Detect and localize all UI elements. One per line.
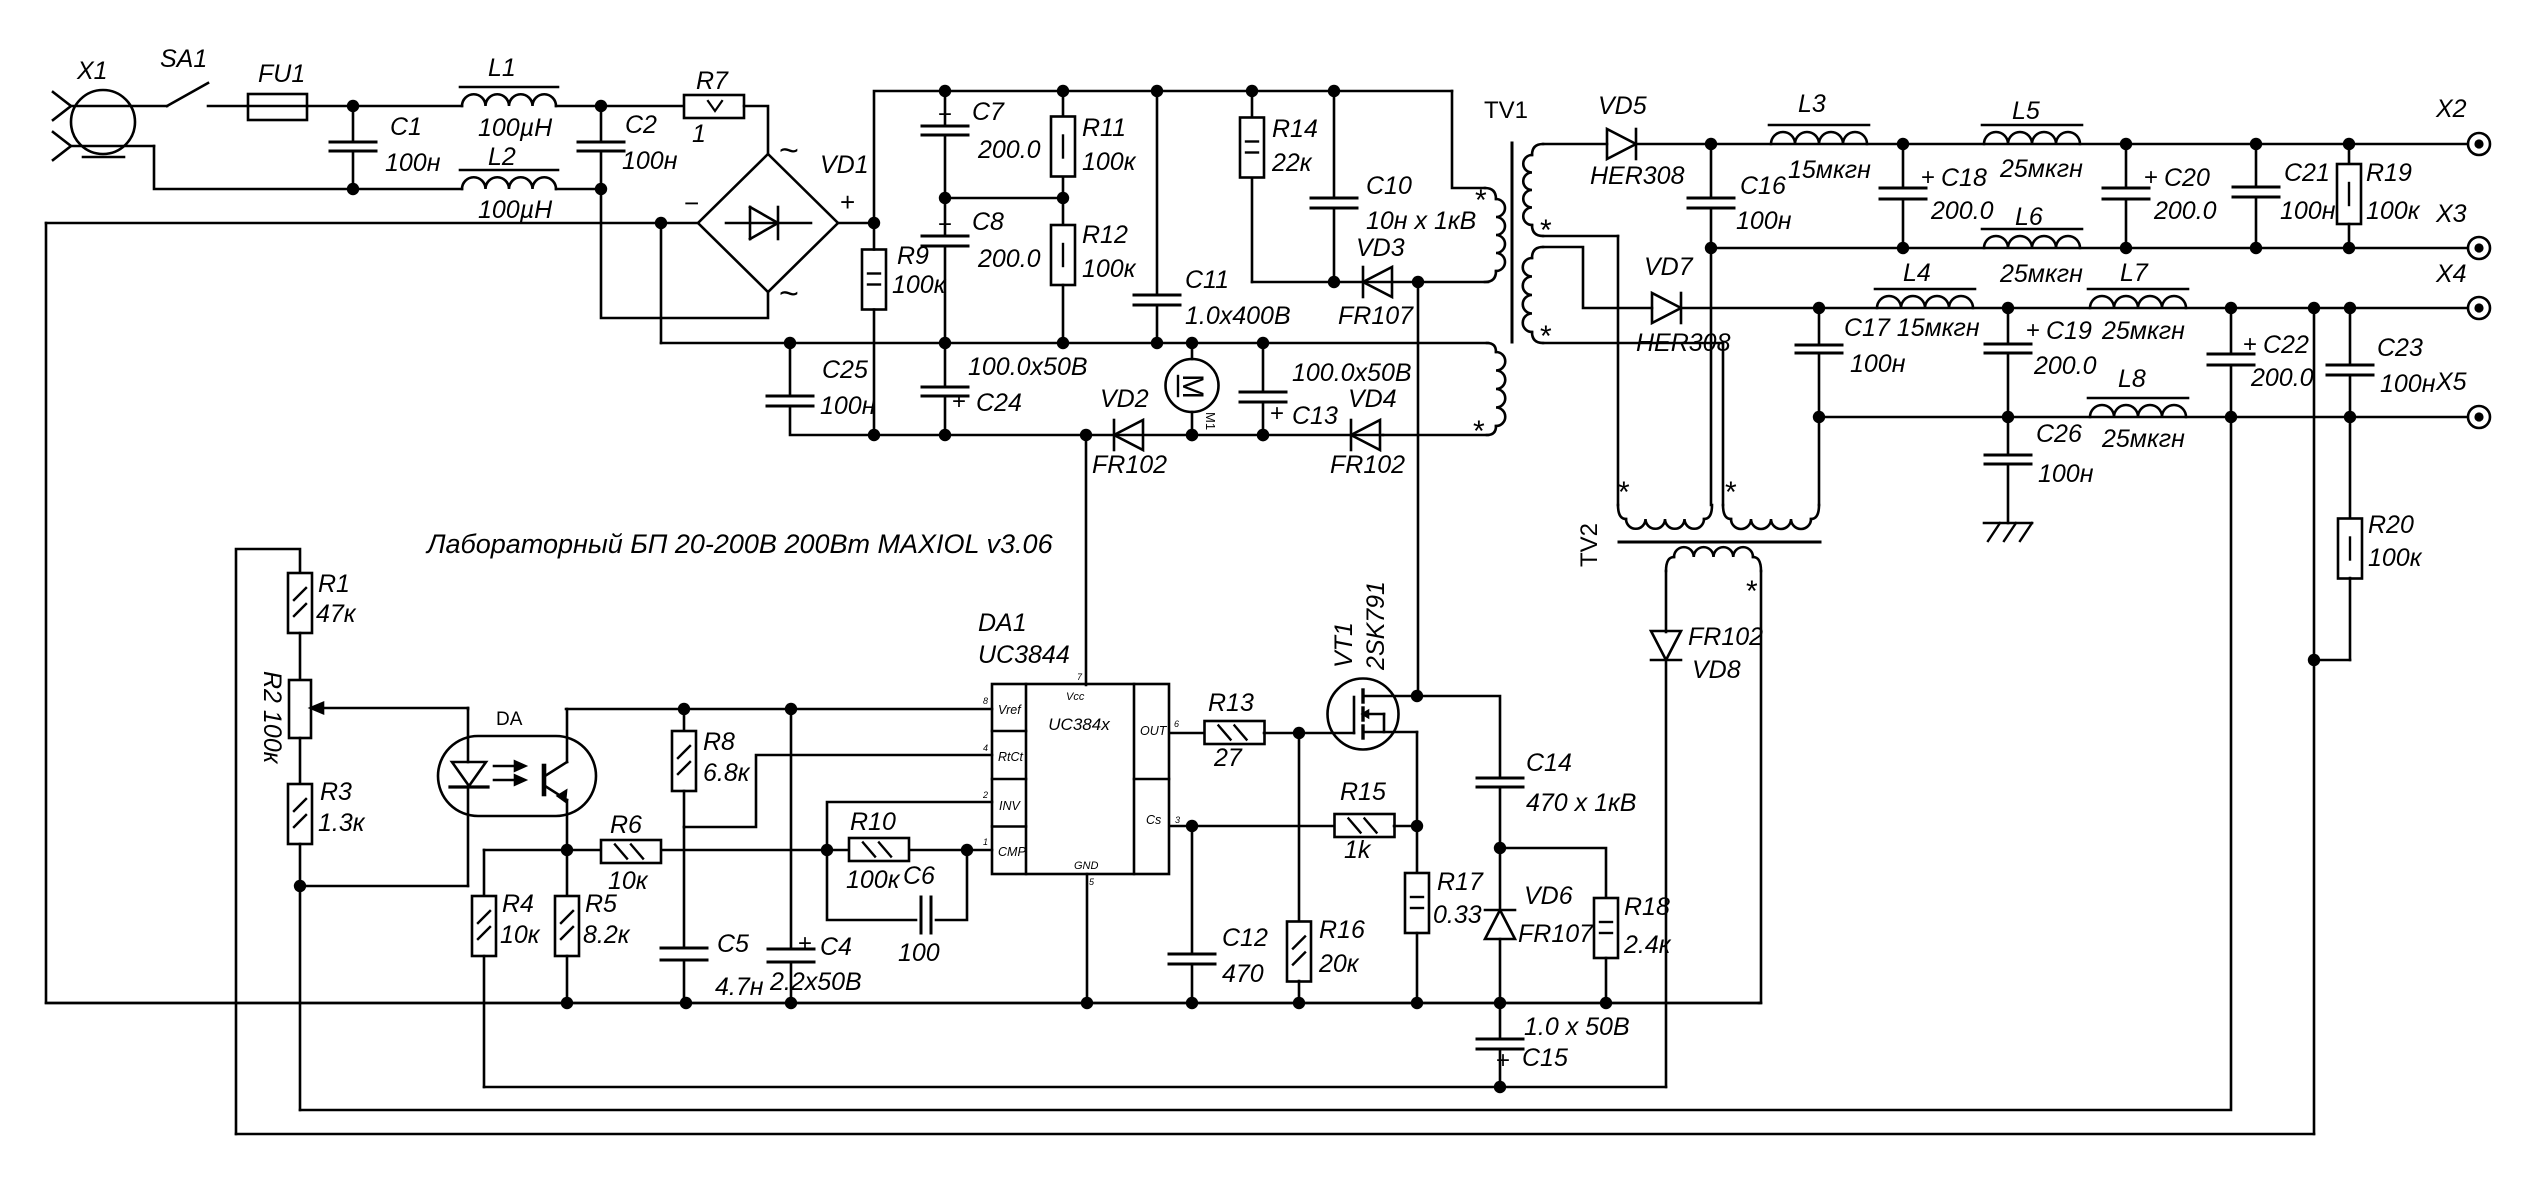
svg-text:100н: 100н bbox=[1736, 207, 1792, 235]
svg-text:VT1: VT1 bbox=[1330, 622, 1358, 668]
svg-text:FR102: FR102 bbox=[1330, 451, 1405, 479]
svg-text:Vref: Vref bbox=[998, 703, 1022, 717]
svg-text:+: + bbox=[938, 101, 952, 128]
svg-text:R18: R18 bbox=[1624, 893, 1670, 921]
svg-text:C14: C14 bbox=[1526, 749, 1572, 777]
svg-text:C16: C16 bbox=[1740, 172, 1786, 200]
svg-text:R4: R4 bbox=[502, 890, 534, 918]
svg-text:1: 1 bbox=[692, 120, 706, 148]
svg-text:8.2к: 8.2к bbox=[583, 921, 631, 949]
svg-text:C7: C7 bbox=[972, 98, 1005, 126]
svg-text:L8: L8 bbox=[2118, 365, 2146, 393]
svg-text:100к: 100к bbox=[2368, 544, 2423, 572]
svg-text:L6: L6 bbox=[2015, 203, 2043, 231]
svg-text:*: * bbox=[1473, 415, 1485, 448]
svg-text:X4: X4 bbox=[2435, 260, 2467, 288]
svg-text:200.0: 200.0 bbox=[1930, 197, 1994, 225]
svg-text:UC3844: UC3844 bbox=[978, 641, 1070, 669]
svg-text:+: + bbox=[1921, 164, 1935, 191]
svg-text:R5: R5 bbox=[585, 890, 617, 918]
svg-text:100µH: 100µH bbox=[478, 196, 553, 224]
svg-text:VD4: VD4 bbox=[1348, 385, 1397, 413]
svg-text:100к: 100к bbox=[1082, 148, 1137, 176]
svg-text:VD7: VD7 bbox=[1644, 253, 1694, 281]
svg-text:100: 100 bbox=[898, 939, 940, 967]
svg-text:+: + bbox=[2144, 164, 2158, 191]
svg-text:5: 5 bbox=[1089, 877, 1095, 887]
svg-text:R12: R12 bbox=[1082, 221, 1128, 249]
svg-text:100µH: 100µH bbox=[478, 114, 553, 142]
svg-text:100н: 100н bbox=[820, 392, 876, 420]
svg-text:L2: L2 bbox=[488, 143, 516, 171]
svg-text:VD6: VD6 bbox=[1524, 882, 1573, 910]
svg-text:R15: R15 bbox=[1340, 778, 1386, 806]
svg-text:−: − bbox=[684, 188, 699, 218]
svg-text:C17 15мкгн: C17 15мкгн bbox=[1844, 314, 1980, 342]
svg-text:+: + bbox=[952, 388, 966, 415]
svg-text:*: * bbox=[1475, 184, 1487, 217]
svg-text:R11: R11 bbox=[1082, 114, 1126, 142]
svg-text:FR102: FR102 bbox=[1688, 623, 1763, 651]
svg-text:R14: R14 bbox=[1272, 115, 1318, 143]
svg-text:INV: INV bbox=[999, 799, 1022, 813]
svg-text:25мкгн: 25мкгн bbox=[1999, 155, 2083, 183]
svg-text:*: * bbox=[1540, 320, 1552, 353]
svg-text:C15: C15 bbox=[1522, 1044, 1568, 1072]
svg-text:Vcc: Vcc bbox=[1066, 691, 1085, 703]
svg-text:7: 7 bbox=[1077, 672, 1083, 682]
svg-text:100к: 100к bbox=[892, 271, 947, 299]
svg-text:6.8к: 6.8к bbox=[703, 759, 751, 787]
svg-text:100к: 100к bbox=[1082, 255, 1137, 283]
svg-text:C19: C19 bbox=[2046, 317, 2092, 345]
svg-text:X5: X5 bbox=[2435, 368, 2467, 396]
svg-text:R10: R10 bbox=[850, 808, 896, 836]
svg-text:C22: C22 bbox=[2263, 331, 2309, 359]
svg-text:L3: L3 bbox=[1798, 90, 1826, 118]
svg-text:100н: 100н bbox=[385, 149, 441, 177]
svg-text:VD2: VD2 bbox=[1100, 385, 1149, 413]
svg-text:3: 3 bbox=[1175, 815, 1180, 825]
svg-text:*: * bbox=[1618, 476, 1630, 509]
svg-text:C8: C8 bbox=[972, 208, 1004, 236]
svg-text:Cs: Cs bbox=[1146, 813, 1161, 827]
svg-text:R17: R17 bbox=[1437, 868, 1484, 896]
svg-text:100н: 100н bbox=[2038, 460, 2094, 488]
svg-text:R3: R3 bbox=[320, 778, 352, 806]
svg-text:2SK791: 2SK791 bbox=[1362, 581, 1390, 671]
svg-text:100к: 100к bbox=[846, 866, 901, 894]
svg-text:C12: C12 bbox=[1222, 924, 1268, 952]
svg-text:+: + bbox=[1270, 400, 1284, 427]
svg-text:C5: C5 bbox=[717, 930, 749, 958]
svg-text:2: 2 bbox=[982, 790, 988, 800]
svg-text:25мкгн: 25мкгн bbox=[1999, 260, 2083, 288]
svg-text:100.0х50В: 100.0х50В bbox=[1292, 359, 1412, 387]
svg-text:1: 1 bbox=[983, 837, 988, 847]
svg-text:6: 6 bbox=[1174, 719, 1179, 729]
svg-text:2.2х50В: 2.2х50В bbox=[769, 968, 862, 996]
svg-text:4: 4 bbox=[983, 743, 988, 753]
svg-text:0.33: 0.33 bbox=[1433, 901, 1482, 929]
svg-text:SA1: SA1 bbox=[160, 45, 207, 73]
svg-text:*: * bbox=[1725, 476, 1737, 509]
svg-text:200.0: 200.0 bbox=[2250, 364, 2314, 392]
svg-text:FR107: FR107 bbox=[1338, 302, 1414, 330]
svg-text:TV1: TV1 bbox=[1484, 97, 1528, 124]
svg-text:VD5: VD5 bbox=[1598, 92, 1647, 120]
svg-text:100к: 100к bbox=[2366, 197, 2421, 225]
svg-text:200.0: 200.0 bbox=[977, 245, 1041, 273]
svg-text:VD1: VD1 bbox=[820, 151, 869, 179]
svg-text:R6: R6 bbox=[610, 811, 642, 839]
svg-text:470: 470 bbox=[1222, 960, 1264, 988]
svg-text:C13: C13 bbox=[1292, 402, 1338, 430]
svg-text:DA: DA bbox=[496, 709, 523, 730]
svg-text:1.0х400В: 1.0х400В bbox=[1185, 302, 1291, 330]
svg-text:C20: C20 bbox=[2164, 164, 2210, 192]
svg-text:+: + bbox=[1496, 1047, 1510, 1074]
svg-text:X1: X1 bbox=[76, 57, 108, 85]
svg-text:470 х 1кВ: 470 х 1кВ bbox=[1526, 789, 1637, 817]
svg-text:10н х 1кВ: 10н х 1кВ bbox=[1366, 207, 1476, 235]
svg-text:VD3: VD3 bbox=[1356, 234, 1405, 262]
svg-text:HER308: HER308 bbox=[1590, 162, 1685, 190]
svg-text:DA1: DA1 bbox=[978, 609, 1027, 637]
svg-text:47к: 47к bbox=[316, 600, 357, 628]
svg-text:C25: C25 bbox=[822, 356, 868, 384]
svg-text:X3: X3 bbox=[2435, 200, 2467, 228]
svg-text:*: * bbox=[1746, 575, 1758, 608]
svg-text:C18: C18 bbox=[1941, 164, 1987, 192]
svg-text:C24: C24 bbox=[976, 389, 1022, 417]
svg-text:22к: 22к bbox=[1271, 149, 1313, 177]
svg-text:FR102: FR102 bbox=[1092, 451, 1167, 479]
svg-text:100н: 100н bbox=[2380, 370, 2436, 398]
svg-text:200.0: 200.0 bbox=[2153, 197, 2217, 225]
svg-text:C26: C26 bbox=[2036, 420, 2082, 448]
svg-text:Лабораторный БП 20-200В 200Вт: Лабораторный БП 20-200В 200Вт MAXIOL v3.… bbox=[425, 529, 1054, 559]
svg-text:C11: C11 bbox=[1185, 266, 1229, 294]
svg-text:+: + bbox=[798, 930, 812, 957]
svg-text:+: + bbox=[938, 211, 952, 238]
svg-text:25мкгн: 25мкгн bbox=[2101, 317, 2185, 345]
svg-text:200.0: 200.0 bbox=[2033, 352, 2097, 380]
svg-text:100н: 100н bbox=[2280, 197, 2336, 225]
svg-text:L4: L4 bbox=[1903, 259, 1931, 287]
svg-text:1.0 х 50В: 1.0 х 50В bbox=[1524, 1013, 1630, 1041]
svg-text:C2: C2 bbox=[625, 111, 657, 139]
svg-text:C21: C21 bbox=[2284, 159, 2330, 187]
svg-text:C4: C4 bbox=[820, 933, 852, 961]
svg-text:1k: 1k bbox=[1344, 836, 1372, 864]
svg-text:100.0х50В: 100.0х50В bbox=[968, 353, 1088, 381]
svg-text:RtCt: RtCt bbox=[998, 750, 1024, 764]
svg-text:25мкгн: 25мкгн bbox=[2101, 425, 2185, 453]
svg-text:R7: R7 bbox=[696, 67, 729, 95]
svg-text:+: + bbox=[2243, 331, 2257, 358]
svg-text:~: ~ bbox=[779, 275, 799, 313]
svg-text:10к: 10к bbox=[500, 921, 541, 949]
svg-text:15мкгн: 15мкгн bbox=[1788, 156, 1871, 184]
svg-text:27: 27 bbox=[1213, 744, 1243, 772]
svg-text:8: 8 bbox=[983, 696, 988, 706]
svg-text:FU1: FU1 bbox=[258, 60, 305, 88]
svg-text:+: + bbox=[2026, 317, 2040, 344]
svg-text:X2: X2 bbox=[2435, 95, 2467, 123]
svg-text:200.0: 200.0 bbox=[977, 136, 1041, 164]
svg-text:CMP: CMP bbox=[998, 845, 1026, 859]
svg-text:1.3к: 1.3к bbox=[318, 809, 366, 837]
svg-text:100н: 100н bbox=[1850, 350, 1906, 378]
svg-text:C23: C23 bbox=[2377, 334, 2423, 362]
svg-text:OUT: OUT bbox=[1140, 724, 1168, 738]
svg-text:*: * bbox=[1540, 214, 1552, 247]
svg-text:GND: GND bbox=[1074, 860, 1099, 872]
svg-text:FR107: FR107 bbox=[1518, 920, 1594, 948]
svg-text:HER308: HER308 bbox=[1636, 329, 1731, 357]
svg-text:+: + bbox=[840, 187, 855, 217]
svg-text:20к: 20к bbox=[1318, 950, 1360, 978]
svg-text:R2 100к: R2 100к bbox=[258, 671, 286, 765]
svg-text:M1: M1 bbox=[1203, 412, 1218, 430]
svg-text:C6: C6 bbox=[903, 862, 935, 890]
svg-text:M: M bbox=[1176, 374, 1209, 399]
svg-text:2.4к: 2.4к bbox=[1623, 931, 1672, 959]
svg-text:~: ~ bbox=[779, 132, 799, 170]
svg-text:TV2: TV2 bbox=[1576, 523, 1603, 567]
svg-text:L1: L1 bbox=[488, 54, 516, 82]
svg-text:C10: C10 bbox=[1366, 172, 1412, 200]
svg-text:R13: R13 bbox=[1208, 689, 1254, 717]
svg-text:UC384x: UC384x bbox=[1048, 715, 1110, 734]
svg-text:R16: R16 bbox=[1319, 916, 1365, 944]
svg-text:VD8: VD8 bbox=[1692, 656, 1741, 684]
svg-text:R20: R20 bbox=[2368, 511, 2414, 539]
svg-text:R19: R19 bbox=[2366, 159, 2412, 187]
svg-text:R1: R1 bbox=[318, 570, 350, 598]
svg-text:100н: 100н bbox=[622, 147, 678, 175]
svg-text:L7: L7 bbox=[2120, 259, 2149, 287]
svg-text:L5: L5 bbox=[2012, 97, 2040, 125]
svg-text:C1: C1 bbox=[390, 113, 422, 141]
svg-text:R8: R8 bbox=[703, 728, 735, 756]
svg-text:4.7н: 4.7н bbox=[715, 973, 764, 1001]
